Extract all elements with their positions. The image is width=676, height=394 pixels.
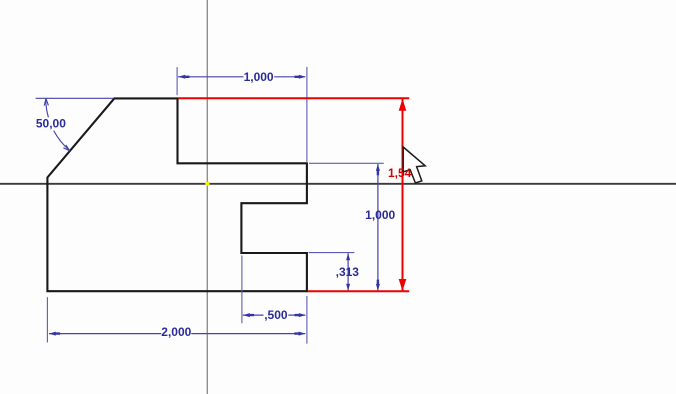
dimension: angle 50,00 <box>36 98 114 151</box>
dimension: top width 1,000 <box>177 67 307 162</box>
dimension: slot depth ,313 <box>309 253 360 291</box>
dimension: bottom width 2,000 <box>47 297 305 342</box>
mouse cursor <box>403 147 425 183</box>
svg-text:1,54: 1,54 <box>388 166 412 180</box>
svg-text:1,000: 1,000 <box>244 70 274 84</box>
origin point <box>205 182 209 186</box>
sketch profile outline <box>47 98 307 291</box>
dimension: slot width ,500 <box>242 256 307 344</box>
svg-text:1,000: 1,000 <box>365 208 395 222</box>
svg-text:,313: ,313 <box>336 265 360 279</box>
dimension: right height 1,000 <box>309 163 396 291</box>
Y axis <box>206 0 208 394</box>
svg-text:50,00: 50,00 <box>36 117 66 131</box>
X axis <box>0 183 676 185</box>
svg-text:,500: ,500 <box>264 308 288 322</box>
dimension being edited (red): height 1,54 <box>178 98 409 291</box>
svg-text:2,000: 2,000 <box>161 325 191 339</box>
